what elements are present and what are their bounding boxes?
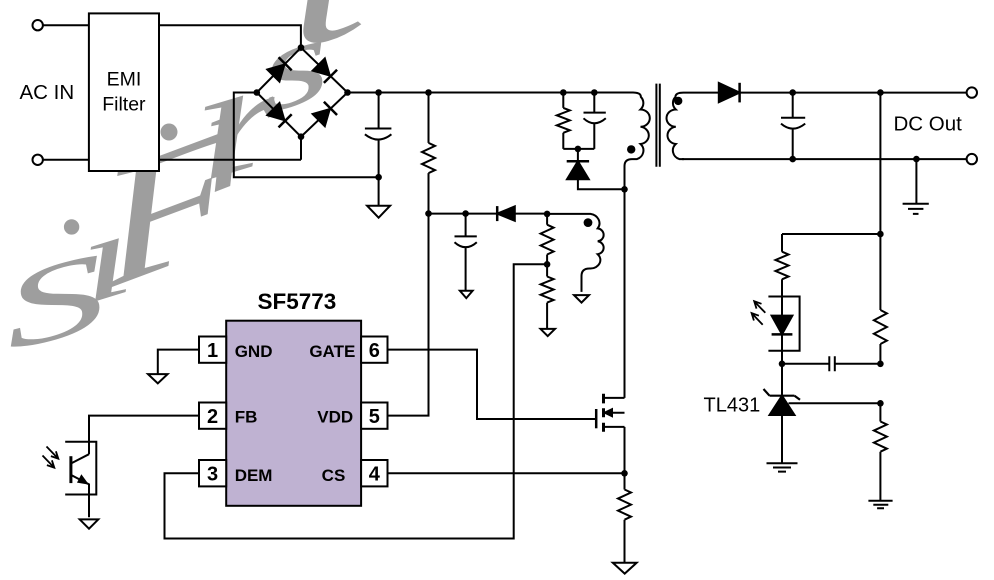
wire pin5 VDD xyxy=(388,214,429,416)
terminal AC bottom xyxy=(33,155,43,165)
earth ground divider xyxy=(868,501,892,509)
bridge diode D2 top-right xyxy=(312,58,337,83)
svg-text:DC Out: DC Out xyxy=(894,113,963,136)
primary phasing dot xyxy=(627,145,635,153)
pin 3 box xyxy=(199,460,226,486)
upper divider resistor R7 xyxy=(874,310,887,364)
wire pin6 GATE xyxy=(388,350,596,419)
ground sense resistor xyxy=(613,563,637,574)
svg-text:CS: CS xyxy=(322,466,346,485)
pin 2 box xyxy=(199,403,226,429)
svg-text:6: 6 xyxy=(369,340,380,362)
compensation capacitor C4 xyxy=(782,356,880,371)
wire bridge negative return xyxy=(234,93,379,178)
node DEM tap xyxy=(544,261,551,268)
svg-text:SF5773: SF5773 xyxy=(257,289,336,314)
node VDD startup xyxy=(425,210,432,217)
node bulk cap bottom xyxy=(375,174,382,181)
LED light arrows xyxy=(752,301,766,325)
snubber capacitor C2 xyxy=(584,93,606,149)
node LED cathode xyxy=(779,361,786,368)
MOSFET Q1 xyxy=(596,394,624,432)
wire output positive rail xyxy=(740,92,967,94)
node TL431 ref xyxy=(877,400,884,407)
optocoupler transistor Q2 xyxy=(71,454,89,517)
terminal DC bottom xyxy=(967,154,977,164)
node bridge right xyxy=(344,89,351,96)
wire pin1 GND xyxy=(158,350,199,374)
bridge diode D4 bottom-right xyxy=(312,102,337,127)
terminal DC top xyxy=(967,87,977,97)
svg-text:DEM: DEM xyxy=(235,466,273,485)
wire snubber join xyxy=(563,149,594,161)
transformer core xyxy=(656,84,659,167)
node aux divider top xyxy=(544,211,551,218)
snubber resistor R2 xyxy=(557,93,570,149)
earth ground TL431 xyxy=(767,463,798,471)
svg-text:3: 3 xyxy=(207,464,218,486)
node bridge bottom xyxy=(298,133,305,140)
terminal AC top xyxy=(33,20,43,30)
wire pin2 FB xyxy=(89,416,199,455)
bulk capacitor C1 xyxy=(365,93,392,178)
aux phasing dot xyxy=(584,218,593,227)
wire DC bus rail xyxy=(348,92,634,94)
pin 5 box xyxy=(361,403,387,429)
transformer primary winding xyxy=(625,93,650,190)
svg-text:2: 2 xyxy=(207,406,218,428)
svg-text:1: 1 xyxy=(207,340,218,362)
snubber diode D5 xyxy=(567,161,589,179)
svg-text:TL431: TL431 xyxy=(704,394,761,416)
LED bias resistor R6 xyxy=(776,252,789,316)
wire MOSFET source xyxy=(624,427,626,473)
ground VDD cap xyxy=(460,291,473,298)
sense resistor R3 xyxy=(618,473,631,563)
svg-text:4: 4 xyxy=(369,464,381,486)
startup resistor R1 xyxy=(422,93,435,214)
node sense top xyxy=(877,231,884,238)
wire feedback sense vertical xyxy=(879,93,881,310)
node snubber C top xyxy=(591,89,598,96)
svg-text:GND: GND xyxy=(235,342,273,361)
bridge diode D1 top-left xyxy=(267,57,292,82)
node comp cap right xyxy=(877,361,884,368)
aux divider resistor R4 xyxy=(541,214,554,264)
pin 6 box xyxy=(361,337,387,363)
ground pin1 xyxy=(148,374,168,383)
wire EMI top to bridge xyxy=(159,25,301,47)
node bulk cap top xyxy=(375,89,382,96)
wire snubber to primary bottom xyxy=(578,179,625,189)
optocoupler LED box xyxy=(768,297,799,351)
node primary bottom drain xyxy=(621,186,628,193)
node output cap bottom xyxy=(789,156,796,163)
bridge rectifier diamond xyxy=(257,48,348,137)
wire pin4 CS xyxy=(388,472,625,474)
node snubber bottom xyxy=(575,146,582,153)
auxiliary winding xyxy=(547,214,604,292)
light arrows into opto xyxy=(43,447,59,468)
svg-text:AC IN: AC IN xyxy=(20,81,75,104)
node startup resistor top xyxy=(425,89,432,96)
transformer secondary winding xyxy=(667,93,719,160)
node CS sense xyxy=(621,470,628,477)
wire diode to aux xyxy=(515,213,547,215)
node bridge left xyxy=(253,89,260,96)
optocoupler transistor box xyxy=(65,442,96,495)
pin 4 box xyxy=(361,460,387,486)
wire TL431 ref xyxy=(789,402,881,404)
output diode D6 xyxy=(719,83,740,103)
optocoupler LED D7 xyxy=(772,316,793,335)
node output cap top xyxy=(789,89,796,96)
IC U1 SF5773 body xyxy=(226,321,361,506)
wire EMI bottom to bridge xyxy=(159,137,301,160)
svg-text:FB: FB xyxy=(235,408,258,427)
wire DEM from divider xyxy=(165,264,548,538)
pin 1 box xyxy=(199,337,226,363)
TL431 shunt regulator U2 xyxy=(764,364,801,463)
wire output bottom rail xyxy=(682,158,967,160)
VDD supply wire xyxy=(429,213,498,215)
node output ground xyxy=(913,156,920,163)
wire AC top left xyxy=(43,24,89,26)
node VDD cap xyxy=(462,210,469,217)
ground bulk cap xyxy=(367,177,390,218)
wire AC bottom left xyxy=(43,159,89,161)
ground aux winding xyxy=(574,295,589,303)
output capacitor C3 xyxy=(781,93,805,160)
EMI filter box xyxy=(89,13,159,171)
earth ground DC out xyxy=(903,159,929,214)
node snubber R top xyxy=(560,89,567,96)
svg-text:Filter: Filter xyxy=(102,94,146,116)
ground aux divider xyxy=(541,329,556,336)
svg-text:VDD: VDD xyxy=(317,408,353,427)
ground opto emitter xyxy=(80,519,99,528)
wire TL431 top sense xyxy=(782,234,880,252)
lower divider resistor R8 xyxy=(874,403,887,500)
bridge diode D3 bottom-left xyxy=(267,103,292,128)
VDD rectifier diode D8 xyxy=(497,206,515,221)
svg-text:GATE: GATE xyxy=(309,342,355,361)
watermark SiFirst xyxy=(0,0,380,375)
VDD capacitor C5 xyxy=(455,214,477,291)
aux divider resistor R5 xyxy=(541,264,554,329)
svg-text:5: 5 xyxy=(369,406,380,428)
secondary phasing dot xyxy=(674,97,682,105)
svg-text:EMI: EMI xyxy=(107,68,142,90)
wire MOSFET drain xyxy=(624,189,626,398)
node bridge top xyxy=(298,44,305,51)
node feedback top xyxy=(877,89,884,96)
wire LED to comp node xyxy=(781,335,783,364)
